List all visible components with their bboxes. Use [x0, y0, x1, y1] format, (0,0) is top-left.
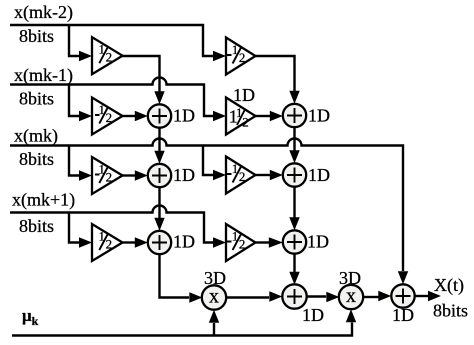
svg-text:8bits: 8bits	[19, 149, 54, 169]
arrow into amp T8	[213, 237, 226, 247]
arrow into adder B1 left	[270, 111, 283, 121]
fraction 1/2 in amp T7	[99, 229, 113, 252]
multiplier M1 circle	[202, 285, 226, 309]
arrow into adder A8 top	[398, 271, 408, 284]
amplifier T7 (1/2) row4 col1	[92, 224, 123, 261]
wire row3 branch to amp T5	[69, 146, 80, 176]
arrow into adder B2 top	[289, 150, 299, 163]
plus sign adder B3	[287, 235, 302, 250]
svg-text:3D: 3D	[204, 268, 226, 288]
plus sign adder A7	[287, 289, 302, 304]
arrow into multiplier M2 bottom	[346, 309, 356, 322]
svg-text:8bits: 8bits	[19, 89, 54, 109]
wire row2 x(mk-1) input line with hop at x=159	[10, 78, 213, 116]
adder B3 circle	[283, 230, 306, 253]
wire adder B1 to adder B2	[293, 127, 295, 151]
wire amp T4 output to adder B1	[256, 115, 271, 117]
plus sign adder A8	[396, 289, 411, 304]
arrow into multiplier M1 bottom	[209, 310, 219, 323]
svg-text:2: 2	[239, 237, 246, 252]
plus sign adder A1	[152, 109, 167, 124]
wire amp T2 output to adder B1 top	[256, 56, 295, 92]
arrow into adder A8 left	[378, 291, 391, 301]
wire amp T7 output to adder A3	[123, 241, 136, 243]
fraction 1/2 in amp T1	[99, 42, 113, 65]
wire row3 x(mk) input line with hops at x=159 and x=294, to final adder A8	[10, 139, 403, 272]
wire mu tap to multiplier M1	[213, 323, 215, 336]
plus sign adder B2	[287, 168, 302, 183]
arrow into amp T7	[79, 237, 92, 247]
wire adder A2 to adder A3	[158, 187, 160, 218]
wire adder A1 to adder A2	[158, 128, 160, 152]
wire adder B3 to adder A7 top	[293, 254, 295, 272]
wire row4 branch to amp T7	[69, 213, 80, 243]
svg-text:x: x	[209, 286, 219, 308]
wire amp T5 output to adder A2	[123, 174, 136, 176]
adder A8 circle	[391, 284, 414, 307]
arrow into amp T6	[213, 170, 226, 180]
arrow into amp T2	[213, 51, 226, 61]
arrow into multiplier M1 left	[189, 292, 202, 302]
fraction -1/2 in amp T5	[95, 162, 112, 185]
multiplier M2 circle	[339, 285, 363, 309]
arrow into amp T1	[79, 51, 92, 61]
svg-text:8bits: 8bits	[19, 26, 54, 46]
amplifier triangles	[92, 37, 256, 261]
svg-text:1D: 1D	[308, 165, 330, 185]
svg-text:2: 2	[239, 50, 246, 65]
svg-text:1D: 1D	[173, 165, 195, 185]
amplifier T8 (-1/2) row4 col2	[226, 224, 256, 261]
arrow output of adder A8	[428, 291, 441, 301]
wire multiplier M1 to adder A7	[226, 296, 269, 298]
wire adder A8 output X(t)	[415, 295, 428, 297]
arrow into adder A1 left	[135, 111, 148, 121]
adder/multiplier circles	[148, 104, 415, 310]
svg-text:8bits: 8bits	[19, 216, 54, 236]
adder B2 circle	[283, 163, 306, 186]
svg-text:2: 2	[106, 237, 113, 252]
svg-text:x(mk-1): x(mk-1)	[14, 65, 73, 86]
fraction 1 1/2 in amp T4	[229, 105, 249, 130]
wire multiplier M2 to adder A8	[363, 296, 379, 298]
wire amp T3 output to adder A1	[123, 115, 136, 117]
plus sign adder B1	[287, 108, 302, 123]
svg-text:1D: 1D	[173, 106, 195, 126]
plus sign adder A2	[152, 168, 167, 183]
adder A7 circle	[282, 284, 306, 308]
arrow into adder A7 top	[289, 272, 299, 285]
amplifier T6 (-1/2) row3 col2	[226, 157, 256, 194]
svg-text:8bits: 8bits	[433, 301, 468, 321]
wire adder B2 to adder B3	[293, 187, 295, 218]
svg-text:2: 2	[242, 115, 249, 130]
adder A1 circle	[148, 104, 171, 127]
arrow into adder A7 left	[269, 291, 282, 301]
amplifier T5 (-1/2) row3 col1	[92, 157, 123, 194]
svg-text:2: 2	[106, 170, 113, 185]
wire adder A7 to multiplier M2	[306, 295, 326, 297]
svg-text:1D: 1D	[308, 106, 330, 126]
svg-text:1D: 1D	[392, 305, 414, 325]
arrow into adder A2 left	[135, 170, 148, 180]
arrow into adder B1 top	[289, 91, 299, 104]
amplifier T4 (1 1/2) row2 col2	[226, 98, 256, 135]
wire mu_k line with taps up to M1 and M2	[12, 323, 352, 336]
svg-text:X(t): X(t)	[434, 275, 464, 296]
svg-text:x(mk+1): x(mk+1)	[12, 190, 75, 211]
arrow into adder A1 top	[154, 91, 164, 104]
arrow into adder A3 top	[154, 218, 164, 231]
fraction -1/2 in amp T6	[227, 161, 245, 184]
fraction -1/2 in amp T8	[227, 229, 245, 252]
wire row2 branch to amp T3	[69, 85, 80, 117]
amplifier T2 (-1/2) row1 col2	[226, 38, 256, 75]
wire adder A3 down and right to multiplier M1	[160, 254, 190, 297]
arrow into adder A3 left	[135, 237, 148, 247]
wire amp T6 output to adder B2	[256, 174, 271, 176]
amplifier T1 (1/2) row1 col1	[92, 37, 123, 74]
svg-text:2: 2	[239, 169, 246, 184]
arrowheads	[79, 51, 441, 323]
svg-text:x(mk-2): x(mk-2)	[14, 2, 73, 23]
arrow into adder B3 top	[289, 217, 299, 230]
svg-text:2: 2	[106, 110, 113, 125]
arrow into amp T3	[79, 111, 92, 121]
fraction -1/2 in amp T2	[227, 42, 245, 65]
arrow into multiplier M2 left	[326, 292, 339, 302]
fraction -1/2 in amp T3	[95, 102, 112, 125]
arrow into adder B3 left	[269, 237, 283, 247]
plus sign adder A3	[152, 235, 167, 250]
svg-text:1D: 1D	[173, 232, 195, 252]
arrow into adder A2 top	[154, 151, 164, 164]
adder A3 circle	[148, 231, 171, 254]
arrow into amp T4	[213, 111, 226, 121]
wire amp T1 output to adder A1 top	[123, 56, 160, 92]
svg-text:1D: 1D	[233, 85, 255, 105]
svg-text:x: x	[346, 285, 356, 307]
amplifier T3 (-1/2) row2 col1	[92, 98, 123, 135]
adder A2 circle	[148, 164, 171, 187]
svg-text:x(mk): x(mk)	[14, 126, 58, 147]
svg-text:2: 2	[106, 50, 113, 65]
arrow into amp T5	[79, 170, 92, 180]
arrow into adder B2 left	[270, 170, 283, 180]
wire row1 x(mk-2) input line	[10, 25, 213, 56]
plus and times signs inside circles	[152, 108, 411, 304]
adder B1 circle	[283, 104, 306, 127]
wire amp T8 output to adder B3	[256, 241, 270, 243]
wire row3 branch to amp T6	[203, 146, 213, 176]
wire row1 branch to amp T1	[69, 25, 80, 56]
svg-text:1D: 1D	[302, 305, 324, 325]
svg-text:1D: 1D	[307, 232, 329, 252]
wire row4 x(mk+1) input line with hop at x=159	[10, 206, 213, 243]
svg-text:3D: 3D	[339, 268, 361, 288]
